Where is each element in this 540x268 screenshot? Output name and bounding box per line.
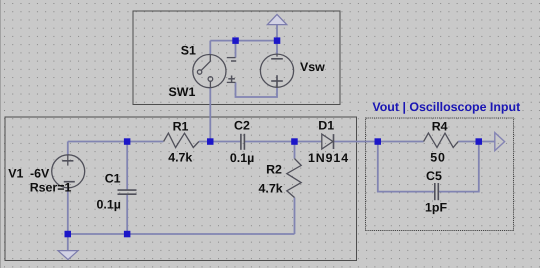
wire R2 bottom lead [294,198,296,235]
resistor R1 [164,133,199,147]
svg-text:-6V: -6V [30,167,50,181]
svg-text:R1: R1 [173,119,189,133]
svg-text:Vsw: Vsw [300,60,325,74]
wire V1 bottom lead [67,188,69,234]
svg-text:S1: S1 [181,44,196,58]
wire Vsw top lead [276,41,278,55]
antenna port symbol [267,14,286,24]
box: source network (left) [5,117,357,261]
wire rail D1 to R4 [334,141,424,143]
source Vsw [260,54,293,87]
svg-text:V1: V1 [8,167,23,181]
wire S1 top lead [209,41,211,55]
wire top rail S1 to Vsw [210,40,277,42]
wire rail R4 to arrow [458,141,495,143]
svg-text:SW1: SW1 [169,85,196,99]
wire C1 top lead [126,142,128,191]
S1 plus mark [228,78,235,80]
box: switch subcircuit (top) [133,11,340,105]
svg-text:0.1µ: 0.1µ [97,197,121,211]
wire V1 top lead [67,142,69,156]
resistor R2 [287,159,301,198]
wire C5 branch right [438,142,479,192]
wire antenna stem [276,25,278,41]
resistor R4 [424,133,459,147]
svg-text:C1: C1 [105,172,121,186]
scope arrow [495,133,505,151]
ground [58,251,78,260]
svg-text:R4: R4 [432,120,448,134]
svg-text:Vout | Oscilloscope Input: Vout | Oscilloscope Input [372,100,520,114]
wire bottom ground rail [68,233,295,235]
svg-text:0.1µ: 0.1µ [230,151,254,165]
wire S1 bottom to main rail [209,88,211,142]
wire ground stem [67,234,69,250]
svg-text:R2: R2 [266,163,282,177]
svg-text:D1: D1 [318,119,334,133]
svg-text:Rser=1: Rser=1 [30,181,72,195]
wire rail R1 to C2 [199,141,241,143]
capacitor C1 [118,189,137,191]
S1 plus control pin stub [227,81,236,83]
window left edge artifact [0,0,1,268]
svg-text:C5: C5 [426,169,442,183]
junction nodes [65,37,483,237]
wire C1 bottom lead [126,194,128,234]
wire C5 branch left [378,142,435,192]
wire R2 top lead [294,142,296,159]
svg-text:C2: C2 [234,118,250,132]
wire rail C2 to D1 [244,141,321,143]
wire S1 minus control [235,41,237,58]
capacitor C2 [240,134,242,150]
svg-text:1pF: 1pF [425,201,447,215]
wire S1 plus control to Vsw bottom [236,82,278,97]
svg-text:4.7k: 4.7k [168,151,192,165]
S1 minus control pin stub [227,57,236,59]
switch S1 [193,55,226,88]
wire main rail V1 to R1 [68,141,164,143]
svg-text:50: 50 [430,150,446,164]
svg-text:4.7k: 4.7k [259,182,283,196]
source V1 [52,155,85,188]
svg-text:1N914: 1N914 [308,151,349,165]
S1 minus mark [231,60,236,62]
capacitor C5 [434,183,436,200]
box: oscilloscope input (right) [366,118,514,231]
diode D1 [322,134,333,149]
